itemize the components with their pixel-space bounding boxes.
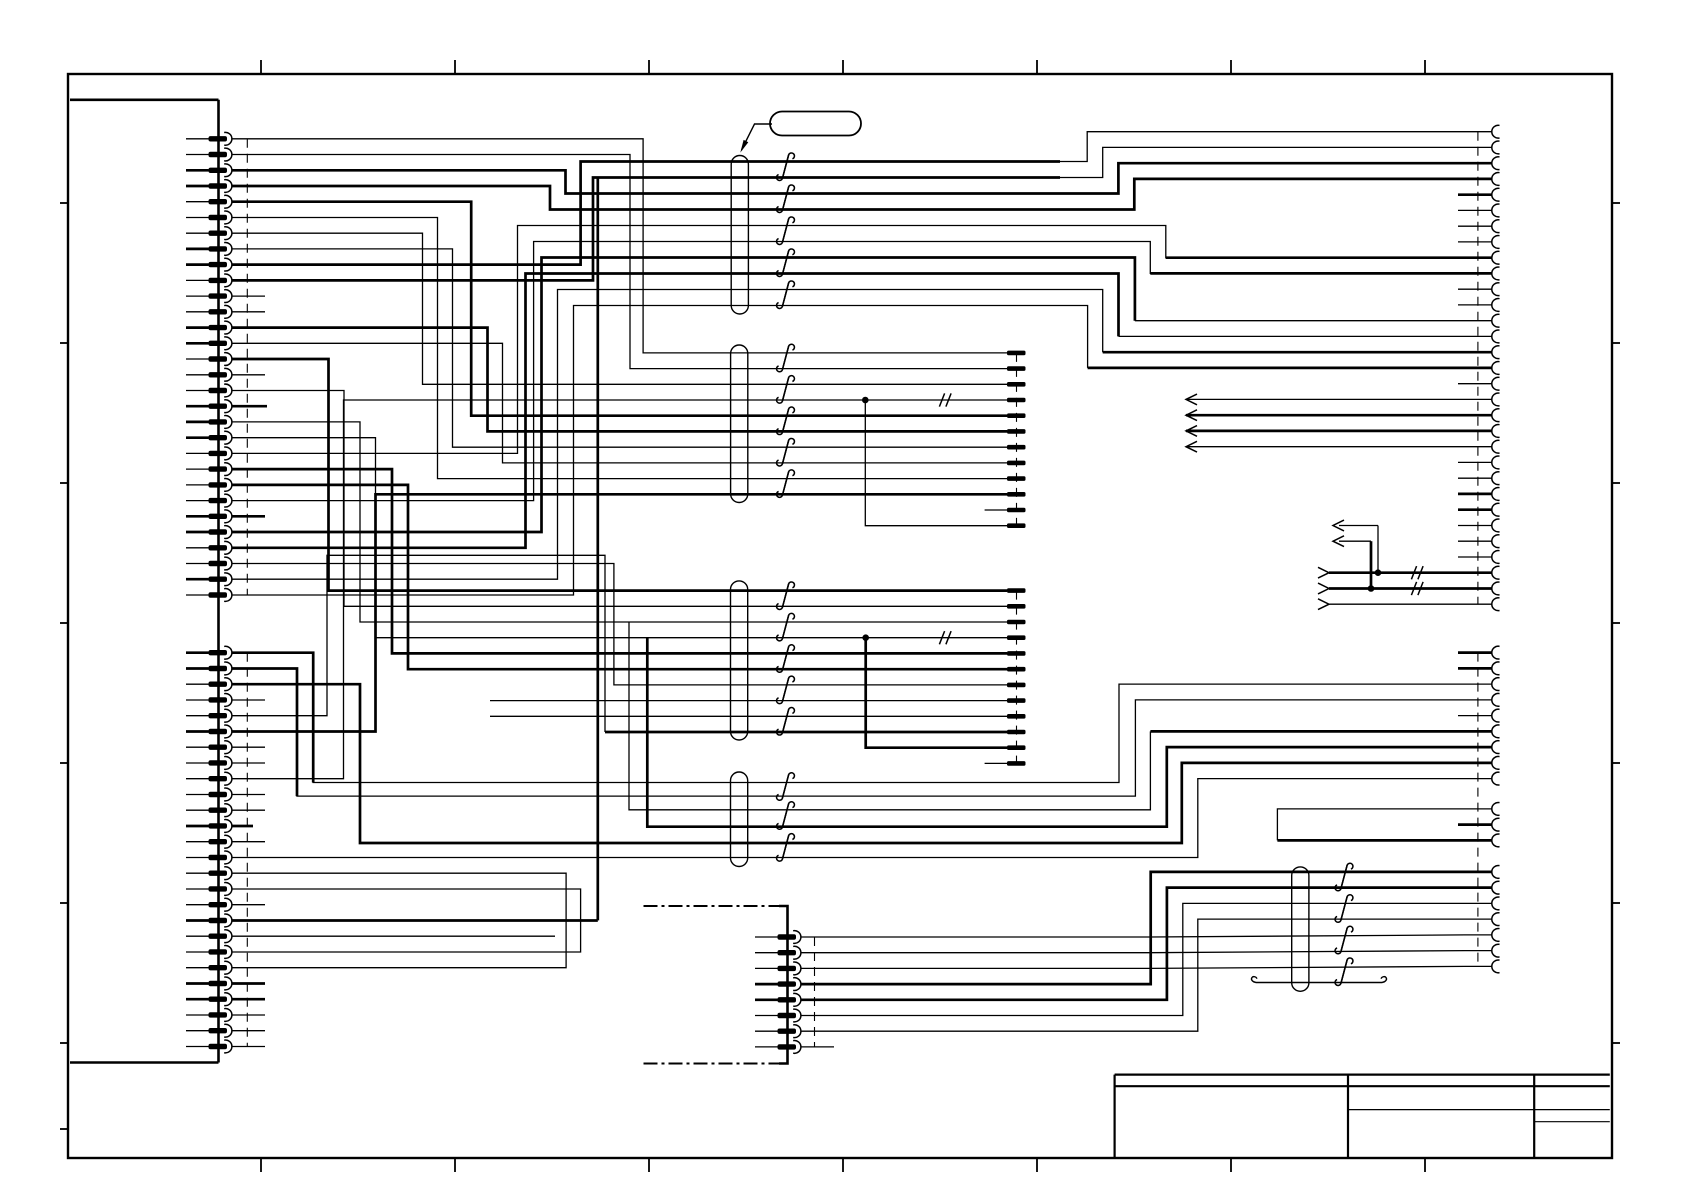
connector X2 pin 11	[186, 809, 209, 811]
junction dot X3.29	[1375, 569, 1382, 576]
title block	[1115, 1073, 1610, 1075]
connector X3 pin 30	[1492, 582, 1500, 595]
junction dot X3.30	[1368, 585, 1375, 592]
connector X3 pin 3	[1492, 157, 1500, 170]
connector X1 terminal dashed line	[246, 139, 248, 595]
connector X2 pin 5	[186, 715, 209, 717]
wire to cable W3 conductor 10	[605, 731, 1007, 734]
wire X2.5 branch up	[232, 555, 606, 732]
wire X2.6 to cable W2 conductor 10	[232, 494, 1008, 731]
wire X5.6 to X4.15	[801, 903, 1492, 1015]
connector X5 pin 6	[755, 1015, 778, 1017]
connector X5 pin 1	[755, 936, 778, 938]
connector X2 pin 15	[186, 872, 209, 874]
connector X4 pin 6	[1492, 725, 1500, 738]
connector X3 pin 4	[1492, 173, 1500, 186]
connector X5 pin 8 stub	[801, 1046, 834, 1048]
connector X1 pin 3	[186, 169, 209, 172]
connector X4 pin 15	[1492, 897, 1500, 910]
wire X1.15 to cable W3 conductor 1	[232, 359, 1008, 591]
signal arrows to X3.18-21	[1186, 398, 1492, 400]
connector X1 pin 5	[186, 201, 209, 203]
connector X3 pin 31	[1492, 598, 1500, 611]
wire into X3.29	[1329, 571, 1492, 574]
terminal strip T1 dashed line	[1016, 353, 1018, 526]
wire X1.20 to cable W3 conductor 4	[232, 438, 1008, 638]
connector X1 pin 27	[186, 547, 209, 549]
connector X5 pin 7	[755, 1030, 778, 1032]
frame tick marks	[260, 60, 262, 74]
connector X4 pin 2	[1492, 662, 1500, 675]
connector X1 pin 11	[186, 295, 209, 297]
wire X4.10 u-turn X4.12	[1277, 809, 1492, 841]
wire X1.10 to cable W1 conductor 2	[232, 178, 1061, 281]
connector X3 pin 17	[1492, 377, 1500, 390]
connector X3 pin 11	[1492, 283, 1500, 296]
wire into X3.31	[1329, 603, 1492, 605]
wire X2.15 u-turn to X2.21	[232, 873, 567, 968]
connector X1 pin 4	[186, 185, 209, 188]
wire X1.23 to cable W3 conductor 6	[232, 485, 1008, 669]
terminal strip T2	[1007, 588, 1026, 593]
connector X4 pin 3	[1492, 678, 1500, 691]
wire X1.22 to cable W3 conductor 5	[232, 469, 1008, 653]
wire X1.9 to cable W1 conductor 1	[232, 162, 1061, 265]
connector X5 pin 8	[755, 1046, 778, 1048]
connector X1 pin 25	[186, 515, 209, 518]
connector X4 pin 18	[1492, 944, 1500, 957]
connector X1 pin 21	[186, 452, 209, 454]
wire X5.2 to X4.18	[801, 951, 1492, 953]
connector X2 pin 7	[186, 746, 209, 748]
connector X2 pin 23	[186, 998, 209, 1001]
connector X3 pin 25	[1492, 503, 1500, 516]
connector X2 pin 17	[186, 904, 209, 906]
bus width mark X3.30	[1411, 582, 1416, 595]
connector X3 pin 16	[1492, 362, 1500, 375]
connector X1 pin 9	[186, 263, 209, 266]
connector X2 pin 16	[186, 888, 209, 890]
connector X3 pin 13	[1492, 314, 1500, 327]
cable W1 balloon label	[770, 112, 861, 136]
shield box dash-dot bottom edge	[644, 1063, 780, 1065]
cable symbol W2	[731, 345, 748, 503]
connector X3 pin 12	[1492, 299, 1500, 312]
connector X4 pin 1	[1492, 646, 1500, 659]
connector X3 pin 7	[1492, 220, 1500, 233]
connector X2 stub wires	[232, 699, 266, 701]
connector X1 stub wires	[232, 295, 266, 297]
wire X1.19 to cable W3 conductor 3	[232, 422, 1008, 622]
connector X2 pin 25	[186, 1030, 209, 1032]
connector X5 pin 3	[755, 967, 778, 969]
connector X1 pin 26	[186, 531, 209, 534]
connector X2 terminal dashed line	[246, 653, 248, 1047]
wire X1.7 to cable W2 conductor 3	[232, 233, 1008, 384]
wire into X3.30	[1329, 587, 1492, 590]
connector X2 pin 14	[186, 857, 209, 859]
wire cable W1 conductors 5-6 step to X3.9-10	[1060, 226, 1492, 258]
wire cable W1 conductors 7-10 step to X3.13-16	[1060, 258, 1135, 321]
wire X1.8 to cable W2 conductor 7	[232, 249, 1008, 447]
branch vertical to X3.29	[1377, 526, 1379, 573]
connector X2 pin 12	[186, 825, 209, 828]
connector X4 pin 7	[1492, 741, 1500, 754]
connector X4 pin 12	[1492, 834, 1500, 847]
connector X2 pin 4	[186, 699, 209, 701]
branch vertical to X3.30	[1370, 541, 1373, 588]
connector X2 pin 13	[186, 841, 209, 843]
connector X1 pin 18	[186, 405, 209, 408]
connector X3 pin 8	[1492, 236, 1500, 249]
connector X2 pin 6	[186, 730, 209, 733]
connector X1 pin 22	[186, 468, 209, 470]
connector X2 pin 3	[186, 683, 209, 685]
connector X3 pin 2	[1492, 141, 1500, 154]
cable W5 rip marks	[1341, 863, 1353, 888]
connector X1 pin 28	[186, 563, 209, 565]
wire X2.3 via cable W4 to X4.8	[232, 684, 1493, 843]
connector X3 pin 15	[1492, 346, 1500, 359]
wire X1.3 to cable W1 conductor 3	[232, 170, 1061, 193]
connector X4 pin 10	[1492, 802, 1500, 815]
junction dot on W3 conductor 4	[862, 634, 869, 641]
connector X3 pin 26	[1492, 519, 1500, 532]
connector X1 pin 1	[186, 138, 209, 140]
bus width mark X3.29	[1411, 566, 1416, 579]
cable W5 clamp line	[1256, 982, 1382, 984]
wire X5.7 to X4.16	[801, 919, 1492, 1031]
connector X1 pin 6	[186, 217, 209, 219]
connector X4 terminal dashed line	[1477, 653, 1479, 967]
wire X1.13 to cable W2 conductor 6	[232, 328, 1008, 432]
terminal strip T2 dashed line	[1016, 591, 1018, 764]
connector X5 pin 5	[755, 998, 778, 1001]
connector X4 pin 16	[1492, 913, 1500, 926]
stub to terminal T2.12	[985, 762, 1007, 764]
connector X1 pin 30	[186, 594, 209, 596]
connector X2 pin 2	[186, 667, 209, 670]
connector X3 pin 24	[1492, 488, 1500, 501]
wire X1.14 to cable W2 conductor 8	[232, 343, 1008, 463]
connector X1 pin 12	[186, 311, 209, 313]
bus width mark on W3 conductor 4	[939, 631, 944, 644]
connector X3 pin 6	[1492, 204, 1500, 217]
cable W4 rip marks	[782, 773, 794, 798]
wire X5.5 to X4.14	[801, 888, 1492, 1000]
connector X2 pin 9	[186, 778, 209, 780]
connector X4 pin 1 stub	[1458, 651, 1492, 654]
connector X1 pin 2	[186, 154, 209, 156]
wire X1.29 to cable W1 conductor 9	[232, 290, 1061, 580]
connector X1 pin 8	[186, 248, 209, 251]
wire cable W1 conductors 1-4 step to X3.1-4	[1060, 132, 1492, 162]
connector X4 pin 4	[1492, 693, 1500, 706]
connector X1 bracket bottom	[70, 1061, 219, 1064]
connector X2 pin 26	[186, 1046, 209, 1048]
connector X4 pin 19	[1492, 960, 1500, 973]
branch drop to X2.18 row	[596, 178, 599, 921]
connector X3 pin 23	[1492, 472, 1500, 485]
cable W3 rip marks	[782, 582, 794, 607]
connector X1 pin 19	[186, 421, 209, 424]
connector X1 spine	[217, 100, 220, 1063]
wire X2.18 row to X1.3 drop	[232, 919, 598, 922]
connector X3 pin 20	[1492, 425, 1500, 438]
connector X3 terminal dashed line	[1477, 132, 1479, 605]
connector X5 pin 2	[755, 952, 778, 954]
connector X2 pin 20	[186, 951, 209, 953]
connector X1 pin 10	[186, 279, 209, 281]
wire X1.1 to cable W2 conductor 1	[232, 139, 1008, 353]
wire X1.21 to cable W1 conductor 5	[232, 226, 1061, 454]
connector X1 pin 20	[186, 436, 209, 439]
wire cable W4 conductor 3 to X4.6	[629, 622, 1150, 810]
branch wire to terminal T2.11	[866, 638, 1007, 748]
connector X3 pin 19	[1492, 409, 1500, 422]
branch arrow X3.26	[1339, 525, 1378, 527]
connector X2 pin 18	[186, 919, 209, 922]
wire X1.27 to cable W1 conductor 8	[232, 274, 1061, 548]
connector X2 pin 1	[186, 651, 209, 654]
wire to cable W3 conductor 8	[490, 700, 1007, 702]
terminal strip T1	[1007, 351, 1026, 356]
wire X1.5 to cable W2 conductor 5	[232, 202, 1008, 416]
wire X1.17 to cable W3 conductor 2	[232, 391, 1008, 607]
shield box dash-dot top edge	[644, 905, 780, 907]
wire X1.2 to cable W2 conductor 2	[232, 155, 1008, 369]
branch wire to terminal T1.12	[865, 400, 1007, 526]
connector X4 stub wires	[1458, 715, 1492, 717]
wire cable W4 conductor 4 to X4.7	[647, 638, 1492, 827]
connector X2 pin 21	[186, 967, 209, 969]
connector X4 pin 14	[1492, 881, 1500, 894]
connector X1 pin 17	[186, 390, 209, 392]
connector X4 pin 8	[1492, 756, 1500, 769]
balloon leader arrowhead	[740, 140, 748, 153]
branch arrow X3.27	[1339, 540, 1371, 542]
connector X3 pin 28	[1492, 551, 1500, 564]
wire X5.1 to X4.17	[801, 935, 1492, 937]
connector X3 pin 10	[1492, 267, 1500, 280]
connector X5 spine	[779, 906, 788, 1064]
cable symbol W4	[731, 772, 748, 867]
wire X1.24 to cable W1 conductor 6	[232, 242, 1061, 501]
wire X2.2 via cable W4 to X4.4	[232, 669, 1493, 797]
connector X1 bracket top	[70, 99, 219, 102]
connector X3 pin 1	[1492, 125, 1500, 138]
wire X2.9 to cable W2 conductor 4	[232, 400, 1008, 779]
wire X2.16 u-turn to X2.20	[232, 889, 581, 952]
wire to cable W3 conductor 9	[490, 715, 1007, 717]
connector X3 pin 5	[1492, 188, 1500, 201]
connector X3 pin 9	[1492, 251, 1500, 264]
connector X4 pin 9	[1492, 772, 1500, 785]
connector X4 pin 2 stub	[1458, 667, 1492, 670]
wire X1.28 to cable W3 conductor 7	[232, 564, 1008, 685]
cable symbol W3	[731, 581, 748, 740]
connector X3 pin 14	[1492, 330, 1500, 343]
wire X2.19 row	[232, 935, 556, 937]
connector X4 pin 17	[1492, 928, 1500, 941]
wire X2.1 via cable W4 to X4.3	[232, 653, 1493, 783]
connector X1 pin 14	[186, 342, 209, 345]
connector X2 pin 19	[186, 935, 209, 937]
connector X4 pin 13	[1492, 866, 1500, 879]
wire X1.6 to cable W2 conductor 9	[232, 218, 1008, 479]
cable W2 rip marks	[782, 344, 794, 369]
connector X2 pin 24	[186, 1014, 209, 1016]
connector X2 pin 10	[186, 794, 209, 796]
connector X3 pin 18	[1492, 393, 1500, 406]
connector X3 pin 22	[1492, 456, 1500, 469]
connector X3 pin 29	[1492, 566, 1500, 579]
connector X4 pin 11	[1492, 818, 1500, 831]
bus width mark on W2 conductor 4	[939, 393, 944, 406]
cable W1 rip marks	[782, 153, 794, 178]
junction dot on W2 conductor 4	[862, 397, 869, 404]
connector X1 pin 29	[186, 578, 209, 581]
wire X2.14 via cable W4 to X4.9	[232, 779, 1493, 858]
connector X2 pin 8	[186, 762, 209, 764]
wire X1.26 to cable W1 conductor 7	[232, 258, 1061, 533]
balloon leader line	[742, 124, 773, 150]
connector X1 pin 15	[186, 358, 209, 360]
connector X5 terminal dashed line	[814, 937, 816, 1047]
connector X1 pin 16	[186, 374, 209, 376]
stub to terminal T1.11	[985, 509, 1007, 511]
connector X1 pin 24	[186, 500, 209, 502]
connector X3 stub wires	[1458, 193, 1492, 196]
cable symbol W1	[731, 156, 748, 315]
connector X4 pin 5	[1492, 709, 1500, 722]
connector X1 pin 13	[186, 326, 209, 329]
wire X5.3 to X4.19	[801, 966, 1492, 968]
wire X5.4 to X4.13	[801, 872, 1492, 984]
connector X2 pin 22	[186, 982, 209, 985]
connector X1 pin 7	[186, 232, 209, 234]
cable symbol W5	[1292, 867, 1309, 991]
connector X3 pin 21	[1492, 440, 1500, 453]
connector X3 pin 27	[1492, 535, 1500, 548]
connector X1 pin 23	[186, 484, 209, 486]
wire X1.4 to cable W1 conductor 4	[232, 186, 1061, 210]
wire X1.30 to cable W1 conductor 10	[232, 306, 1061, 596]
connector X5 pin 4	[755, 983, 778, 986]
